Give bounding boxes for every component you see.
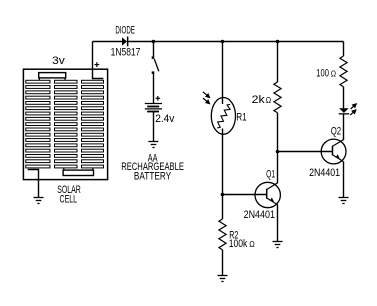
label 100k ohm	[229, 238, 255, 250]
wire junction to R1	[222, 42, 224, 99]
R1 light arrows	[203, 92, 210, 104]
svg-text:2N4401: 2N4401	[244, 209, 275, 221]
wire R2 to ground	[222, 250, 224, 275]
svg-text:100k: 100k	[229, 238, 248, 250]
svg-text:Q1: Q1	[266, 168, 275, 180]
wire battery to ground	[153, 112, 155, 142]
wire junction to switch	[153, 42, 155, 57]
label plus battery	[156, 96, 161, 101]
ground Q1	[273, 242, 283, 248]
resistor 100 ohm	[340, 56, 347, 87]
svg-text:2k: 2k	[252, 94, 266, 106]
wire solar cell positive lead	[93, 42, 104, 79]
node R2-Q1 junction	[221, 193, 225, 197]
wire junction to 2k resistor	[277, 42, 279, 83]
solar cell top bus tab	[39, 73, 66, 78]
node battery-switch junction	[152, 40, 156, 44]
wire 100 ohm to LED	[343, 87, 345, 109]
svg-text:Ω: Ω	[249, 240, 255, 249]
solar cell tab connectors	[39, 78, 92, 170]
wire junction to R2	[222, 195, 224, 220]
wire junction to Q2 base	[278, 151, 333, 153]
solar cell bottom bus tab	[63, 170, 93, 175]
node Q1 collector / Q2 base junction	[276, 150, 280, 154]
wire top rail right segment	[128, 41, 344, 43]
switch S1	[152, 56, 159, 74]
svg-text:BATTERY: BATTERY	[134, 170, 172, 182]
solar cell PV1 outer frame	[23, 69, 107, 179]
svg-text:2N4401: 2N4401	[309, 167, 340, 179]
solar cell stripe column 2	[55, 80, 78, 168]
transistor Q1 2N4401	[255, 182, 280, 207]
svg-text:Ω: Ω	[331, 70, 336, 79]
node R1 branch junction	[221, 40, 225, 44]
ground R2	[218, 276, 228, 282]
svg-text:1N5817: 1N5817	[111, 46, 141, 58]
label 2k ohm	[252, 94, 271, 106]
ground Q2	[339, 198, 349, 204]
LED light arrows	[350, 104, 356, 115]
svg-text:Ω: Ω	[266, 96, 272, 105]
wire Q1 emitter to ground	[277, 205, 279, 242]
svg-text:2.4v: 2.4v	[155, 113, 175, 125]
wire top rail to 100 ohm resistor	[343, 42, 345, 57]
wire switch to battery	[153, 74, 155, 103]
photoresistor R1	[211, 98, 235, 135]
resistor 2k	[274, 82, 281, 113]
node 2k branch junction	[276, 40, 280, 44]
wire top rail left segment	[93, 41, 123, 43]
label plus solar	[95, 62, 100, 67]
wire junction to Q1 collector	[277, 152, 279, 184]
solar cell stripe column 3	[82, 80, 104, 168]
wire junction to Q1 base	[223, 194, 267, 196]
svg-text:CELL: CELL	[60, 194, 78, 206]
wire LED to Q2 collector	[343, 115, 345, 141]
wire Q2 emitter to ground	[343, 162, 345, 198]
ground solar cell	[34, 198, 44, 204]
LED D2	[339, 108, 350, 114]
transistor Q2 2N4401	[321, 139, 346, 164]
solar cell stripe column 1	[26, 80, 50, 168]
wire solar cell negative lead	[28, 170, 39, 198]
svg-text:R1: R1	[236, 111, 246, 123]
ground battery	[148, 142, 158, 148]
label 100 ohm	[316, 68, 336, 80]
wire R1 to junction	[222, 134, 224, 195]
svg-text:3v: 3v	[52, 55, 65, 67]
svg-text:100: 100	[316, 68, 329, 80]
diode D1 1N5817	[122, 37, 128, 47]
battery BT1	[145, 104, 162, 112]
resistor R2	[219, 219, 226, 250]
svg-text:Q2: Q2	[331, 126, 341, 138]
wire 2k to junction node	[277, 113, 279, 152]
svg-text:DIODE: DIODE	[115, 25, 134, 37]
